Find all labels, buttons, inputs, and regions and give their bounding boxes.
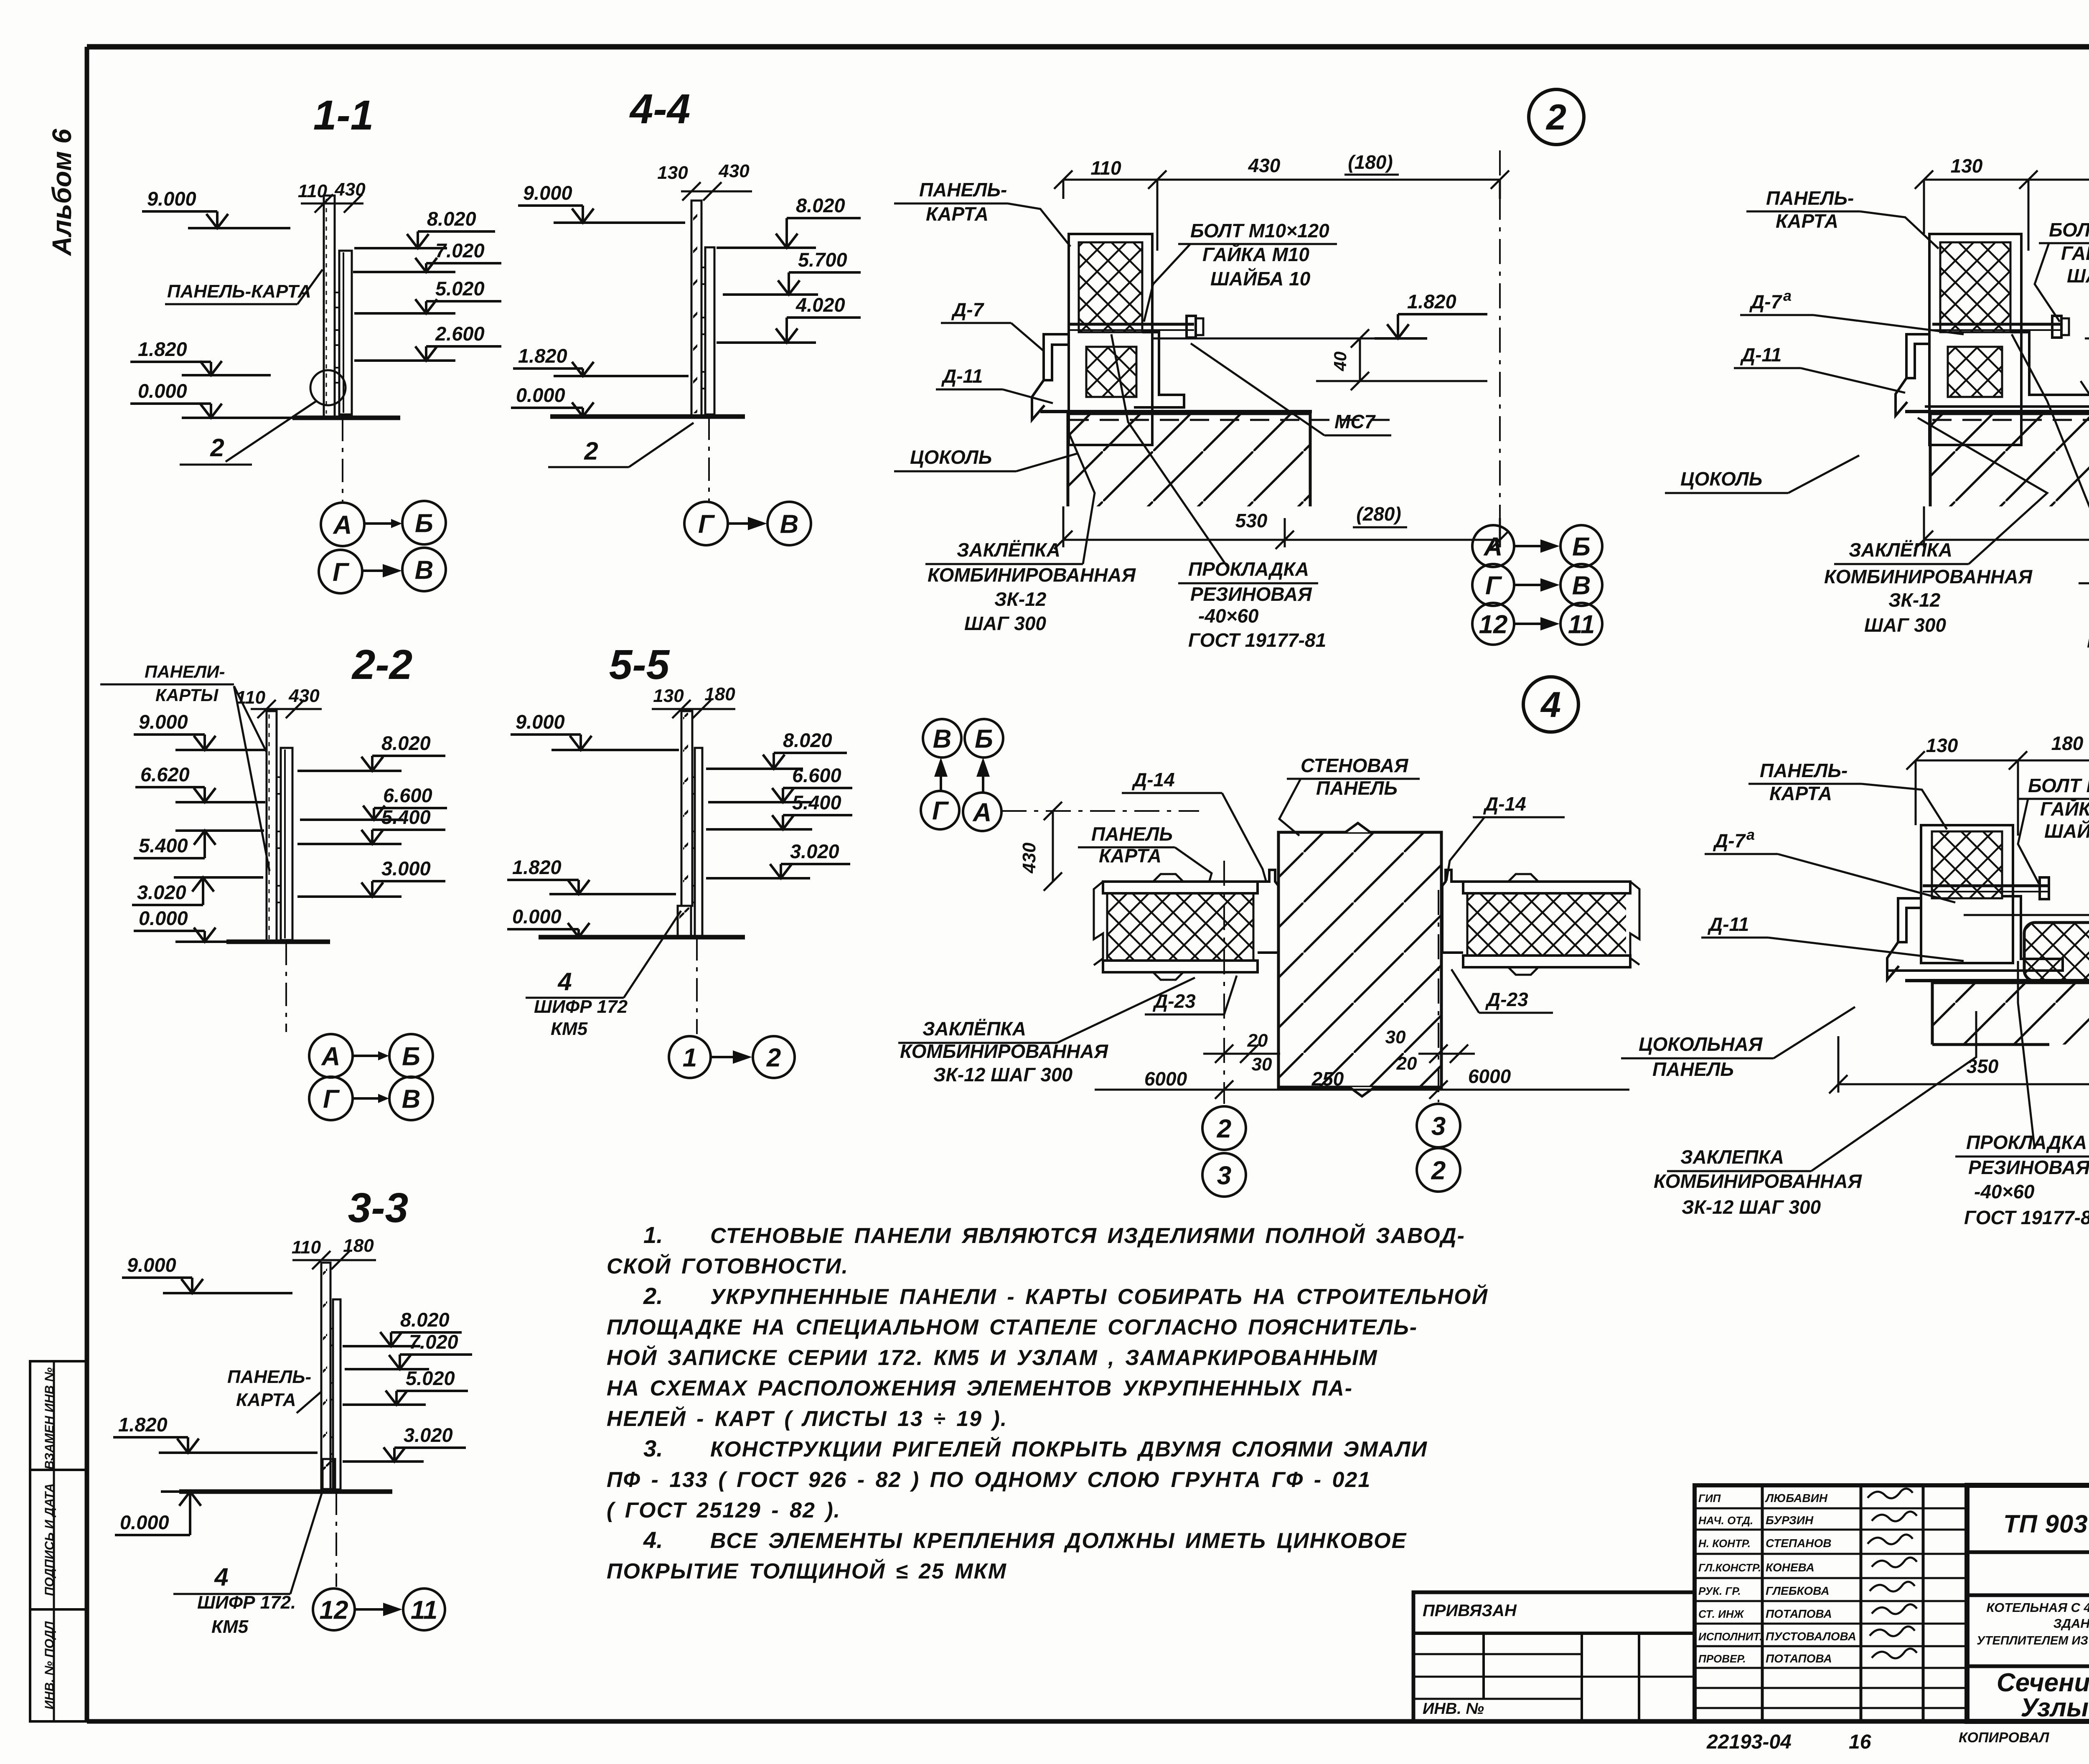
arrow 1 to 2 (5-5) xyxy=(712,1056,735,1058)
svg-text:5.400: 5.400 xyxy=(139,834,188,857)
svg-text:7.020: 7.020 xyxy=(435,239,485,262)
svg-text:(280): (280) xyxy=(1356,503,1401,525)
svg-text:ПРОВЕР.: ПРОВЕР. xyxy=(1698,1652,1746,1665)
center axis dash-dot (4-4) xyxy=(708,417,710,501)
ground line (1-1) xyxy=(292,416,400,420)
svg-text:ТП 903 -1- 246. 87: ТП 903 -1- 246. 87 xyxy=(2003,1510,2089,1538)
center axis dash-dot (5-5) xyxy=(696,937,698,1034)
elevation 5.400 right (2-2) xyxy=(297,806,445,844)
svg-text:Б: Б xyxy=(975,724,993,753)
svg-text:ИСПОЛНИТ.: ИСПОЛНИТ. xyxy=(1698,1630,1763,1643)
svg-text:ПЛОЩАДКЕ НА СПЕЦИАЛЬНОМ СТА: ПЛОЩАДКЕ НА СПЕЦИАЛЬНОМ СТАПЕЛЕ СОГЛАСНО… xyxy=(607,1315,1418,1340)
svg-text:3-3: 3-3 xyxy=(348,1184,409,1231)
svg-text:КАРТА: КАРТА xyxy=(1776,210,1838,232)
node circle 4 xyxy=(1523,677,1578,732)
svg-text:ГЛ.КОНСТР.: ГЛ.КОНСТР. xyxy=(1698,1561,1761,1574)
svg-text:ПОТАПОВА: ПОТАПОВА xyxy=(1766,1607,1832,1620)
svg-text:КАРТЫ: КАРТЫ xyxy=(155,685,219,705)
svg-text:КМ5: КМ5 xyxy=(211,1617,249,1637)
elevation 3.000 (2-2) xyxy=(297,857,445,897)
svg-text:КОПИРОВАЛ: КОПИРОВАЛ xyxy=(1959,1730,2049,1746)
elevation 1.820 (3-3) xyxy=(113,1413,318,1453)
svg-text:-40×60: -40×60 xyxy=(1974,1181,2035,1202)
svg-text:В: В xyxy=(402,1085,421,1113)
svg-text:5.700: 5.700 xyxy=(798,249,847,271)
svg-text:КМ5: КМ5 xyxy=(551,1019,588,1039)
svg-text:ШАЙБА 10: ШАЙБА 10 xyxy=(2044,820,2089,842)
elevation 0.000 (4-4) xyxy=(511,384,594,417)
arrow Г to В (2-2) xyxy=(353,1097,381,1100)
svg-text:КОМБИНИРОВАННАЯ: КОМБИНИРОВАННАЯ xyxy=(1824,566,2033,587)
elevation 5.020 (3-3) xyxy=(343,1367,468,1405)
svg-text:2.: 2. xyxy=(643,1283,663,1309)
svg-text:ЗК-12: ЗК-12 xyxy=(994,588,1047,610)
wall outer strip (5-5) xyxy=(695,748,702,937)
svg-text:Д-14: Д-14 xyxy=(1483,793,1526,815)
svg-text:ПАНЕЛЬ-: ПАНЕЛЬ- xyxy=(227,1367,311,1387)
svg-text:ЗАКЛЁПКА: ЗАКЛЁПКА xyxy=(957,539,1060,561)
svg-text:2: 2 xyxy=(1431,1156,1446,1185)
svg-text:а: а xyxy=(1746,826,1755,843)
svg-text:ВСЕ ЭЛЕМЕНТЫ КРЕПЛЕНИЯ ДОЛЖ: ВСЕ ЭЛЕМЕНТЫ КРЕПЛЕНИЯ ДОЛЖНЫ ИМЕТЬ ЦИНК… xyxy=(710,1529,1407,1553)
svg-text:4.020: 4.020 xyxy=(795,294,845,316)
svg-text:КАРТА: КАРТА xyxy=(1099,845,1161,867)
svg-text:ПФ - 133 ( ГОСТ 926 - 82 ): ПФ - 133 ( ГОСТ 926 - 82 ) ПО ОДНОМУ СЛО… xyxy=(607,1468,1371,1492)
axis circle 1 (5-5) xyxy=(669,1036,711,1078)
svg-text:8.020: 8.020 xyxy=(783,729,832,751)
elevation 6.600 (5-5) xyxy=(708,764,852,802)
floor slab / цоколь (node 2) xyxy=(1068,414,1310,506)
svg-text:НОЙ ЗАПИСКЕ СЕРИИ 172. КМ5: НОЙ ЗАПИСКЕ СЕРИИ 172. КМ5 И УЗЛАМ , ЗАМ… xyxy=(607,1345,1378,1370)
rigel beam (node 5) xyxy=(1932,983,2089,1045)
svg-text:Д-11: Д-11 xyxy=(941,365,983,387)
svg-text:ЦОКОЛЬНАЯ: ЦОКОЛЬНАЯ xyxy=(1639,1033,1763,1055)
svg-text:КОМБИНИРОВАННАЯ: КОМБИНИРОВАННАЯ xyxy=(1654,1170,1863,1192)
svg-text:3: 3 xyxy=(1217,1161,1231,1190)
svg-text:ЦОКОЛЬ: ЦОКОЛЬ xyxy=(910,446,992,468)
привязан table xyxy=(1413,1592,1695,1721)
svg-text:30: 30 xyxy=(1252,1054,1272,1075)
svg-text:ШИФР 172.: ШИФР 172. xyxy=(197,1592,296,1613)
title block main outline xyxy=(1967,1485,2089,1721)
wall panel-karta strip (1-1) xyxy=(324,196,335,417)
svg-text:ПОКРЫТИЕ ТОЛЩИНОЙ ≤ 25 МКМ: ПОКРЫТИЕ ТОЛЩИНОЙ ≤ 25 МКМ xyxy=(607,1558,1007,1584)
svg-text:11: 11 xyxy=(411,1596,437,1624)
axis circle Б (2-2) xyxy=(389,1034,433,1078)
svg-text:12: 12 xyxy=(1479,610,1508,639)
svg-text:В: В xyxy=(933,724,952,753)
svg-text:3.020: 3.020 xyxy=(404,1424,453,1446)
svg-text:1.820: 1.820 xyxy=(518,345,567,367)
svg-text:4-4: 4-4 xyxy=(629,86,691,132)
axis circle В (1-1) xyxy=(402,548,446,591)
axis circle 3 right (node 4) xyxy=(1417,1104,1460,1147)
svg-text:0.000: 0.000 xyxy=(139,907,188,929)
svg-text:ЗК-12 ШАГ 300: ЗК-12 ШАГ 300 xyxy=(933,1064,1073,1085)
svg-text:430: 430 xyxy=(1019,842,1039,874)
svg-text:ГАЙКА М10: ГАЙКА М10 xyxy=(2061,242,2089,264)
elevation 1.820 (node 2) xyxy=(1375,290,1487,338)
svg-text:КАРТА: КАРТА xyxy=(236,1390,296,1410)
svg-text:КОМБИНИРОВАННАЯ: КОМБИНИРОВАННАЯ xyxy=(900,1040,1109,1062)
panel-karta vertical (node 5) xyxy=(1921,825,2013,963)
svg-text:ЗАКЛЕПКА: ЗАКЛЕПКА xyxy=(1680,1146,1784,1168)
elevation 0.000 (1-1) xyxy=(130,380,292,418)
svg-text:ГИП: ГИП xyxy=(1698,1492,1721,1505)
svg-text:30: 30 xyxy=(1385,1027,1406,1047)
elevation 3.020 (5-5) xyxy=(706,840,850,878)
bracket profile (node 5) xyxy=(1898,898,1921,942)
left panel-karta horizontal (node 4) xyxy=(1103,882,1258,893)
svg-text:-40×60: -40×60 xyxy=(1198,605,1259,627)
margin box Взамен инв № xyxy=(30,1361,87,1470)
margin box Инв № подл xyxy=(30,1609,87,1721)
svg-text:СТЕНОВАЯ: СТЕНОВАЯ xyxy=(1301,755,1409,776)
svg-text:2: 2 xyxy=(1545,97,1566,137)
svg-text:5-5: 5-5 xyxy=(609,641,670,688)
svg-text:СКОЙ ГОТОВНОСТИ.: СКОЙ ГОТОВНОСТИ. xyxy=(607,1253,849,1279)
svg-text:а: а xyxy=(1783,287,1792,304)
elevation 9.000 (2-2) xyxy=(134,711,265,750)
svg-text:БОЛТ М10×140: БОЛТ М10×140 xyxy=(2028,775,2089,796)
svg-text:ШАГ 300: ШАГ 300 xyxy=(964,613,1046,634)
MC7 dashed line (node 2) xyxy=(1070,419,1400,421)
arrow 12 to 11 (3-3) xyxy=(356,1608,386,1611)
svg-text:Д-23: Д-23 xyxy=(1152,990,1196,1012)
svg-text:ПАНЕЛЬ: ПАНЕЛЬ xyxy=(1652,1058,1734,1080)
axis circle В (node 4) xyxy=(923,719,961,757)
axis circle Г (node 4) xyxy=(921,791,959,829)
svg-text:4: 4 xyxy=(214,1563,228,1591)
svg-text:9.000: 9.000 xyxy=(127,1254,176,1276)
svg-text:ПОДПИСЬ И ДАТА: ПОДПИСЬ И ДАТА xyxy=(43,1483,56,1596)
svg-text:ПРИВЯЗАН: ПРИВЯЗАН xyxy=(1423,1601,1517,1620)
wall outer strip (4-4) xyxy=(705,247,714,414)
elevation 5.700 (4-4) xyxy=(723,249,861,295)
brusok mineral wool block (node 5) xyxy=(2024,923,2089,981)
axis dash-dot verticals (node 4) xyxy=(1223,861,1225,1104)
svg-text:7.020: 7.020 xyxy=(409,1331,458,1353)
svg-text:40: 40 xyxy=(1330,351,1350,371)
svg-text:6.600: 6.600 xyxy=(792,764,841,786)
svg-text:ПАНЕЛЬ-: ПАНЕЛЬ- xyxy=(919,179,1007,201)
svg-text:3.020: 3.020 xyxy=(790,840,839,862)
svg-text:430: 430 xyxy=(288,686,320,706)
svg-text:РЕЗИНОВАЯ: РЕЗИНОВАЯ xyxy=(1190,583,1312,605)
svg-text:3.020: 3.020 xyxy=(137,881,186,903)
svg-text:УКРУПНЕННЫЕ ПАНЕЛИ - КАРТЫ С: УКРУПНЕННЫЕ ПАНЕЛИ - КАРТЫ СОБИРАТЬ НА С… xyxy=(710,1284,1488,1309)
svg-text:430: 430 xyxy=(718,161,750,181)
svg-text:4: 4 xyxy=(1540,685,1561,725)
svg-text:8.020: 8.020 xyxy=(427,208,476,230)
svg-text:2-2: 2-2 xyxy=(351,641,413,688)
axis circle 2 right (node 4) xyxy=(1417,1148,1460,1192)
axis circle А (node 4) xyxy=(963,793,1001,831)
svg-text:0.000: 0.000 xyxy=(512,905,562,928)
svg-text:0.000: 0.000 xyxy=(120,1511,169,1533)
svg-text:9.000: 9.000 xyxy=(147,188,196,210)
svg-text:Д-23: Д-23 xyxy=(1485,989,1528,1010)
elevation 8.020 (5-5) xyxy=(706,729,847,769)
svg-text:180: 180 xyxy=(2051,732,2084,754)
lower insulation block (node 2) xyxy=(1086,347,1136,397)
wall panel strip (3-3) xyxy=(321,1263,330,1492)
svg-text:Б: Б xyxy=(1572,532,1591,561)
detail circle 2 (1-1) xyxy=(310,370,346,405)
center axis dash-dot (1-1) xyxy=(342,418,343,501)
arrow А to Б (2-2) xyxy=(353,1055,381,1057)
svg-text:1.: 1. xyxy=(643,1222,663,1248)
svg-text:3: 3 xyxy=(1431,1112,1446,1141)
elevation 5.020 (1-1) xyxy=(354,277,501,313)
svg-text:130: 130 xyxy=(1926,735,1958,756)
svg-text:Г: Г xyxy=(333,558,350,587)
svg-text:1.820: 1.820 xyxy=(512,856,562,878)
center axis dash-dot (2-2) xyxy=(285,942,287,1032)
axis circle 3 left (node 4) xyxy=(1202,1153,1246,1197)
svg-text:ЗК-12: ЗК-12 xyxy=(1888,589,1941,611)
svg-text:130: 130 xyxy=(657,163,688,183)
svg-text:2: 2 xyxy=(1217,1114,1231,1143)
svg-text:430: 430 xyxy=(1248,155,1281,176)
svg-text:110: 110 xyxy=(1090,157,1121,179)
svg-text:ЗК-12 ШАГ 300: ЗК-12 ШАГ 300 xyxy=(1682,1196,1821,1218)
svg-text:ПРОКЛАДКА: ПРОКЛАДКА xyxy=(1966,1131,2087,1153)
elevation 0.000 (5-5) xyxy=(507,905,590,937)
svg-text:В: В xyxy=(1572,571,1591,600)
svg-text:СТЕПАНОВ: СТЕПАНОВ xyxy=(1766,1537,1832,1550)
svg-text:22193-04: 22193-04 xyxy=(1706,1731,1792,1753)
right panel-karta horizontal (node 4) xyxy=(1463,882,1630,893)
wall column strip (1-1) xyxy=(339,251,352,414)
svg-text:БОЛТ М10×140: БОЛТ М10×140 xyxy=(2049,219,2089,241)
svg-text:Узлы 2 ÷ 5: Узлы 2 ÷ 5 xyxy=(2020,1693,2089,1722)
bolt M10x140 (node 5) xyxy=(1923,885,2049,887)
svg-text:6000: 6000 xyxy=(1144,1068,1187,1090)
elevation 8.020 (4-4) xyxy=(717,194,861,248)
svg-text:4: 4 xyxy=(557,968,572,996)
svg-text:ГОСТ 19177-81: ГОСТ 19177-81 xyxy=(1964,1207,2089,1228)
svg-text:КОНЕВА: КОНЕВА xyxy=(1766,1561,1815,1574)
svg-text:1-1: 1-1 xyxy=(313,92,374,139)
axis circle 12 (node 2) xyxy=(1472,603,1514,645)
arrow А to Б xyxy=(365,522,394,525)
floor slab (node 3) xyxy=(1930,414,2089,506)
wall panel strip (4-4) xyxy=(691,201,701,416)
wall panel strip (2-2) xyxy=(267,711,277,942)
ground line (3-3) xyxy=(179,1489,392,1494)
svg-text:8.020: 8.020 xyxy=(796,194,845,216)
svg-text:СТ. ИНЖ: СТ. ИНЖ xyxy=(1698,1608,1745,1620)
svg-text:5.400: 5.400 xyxy=(792,791,841,813)
right axis dash-dot vertical (node 2) xyxy=(1499,150,1501,539)
arrows Г->В А->Б (node 4) xyxy=(940,772,942,791)
svg-text:Б: Б xyxy=(415,509,433,538)
elevation 5.400 (5-5) xyxy=(706,791,852,829)
svg-text:Г: Г xyxy=(323,1085,340,1113)
bolt M10x120 (node 2) xyxy=(1070,323,1194,326)
elevation 1.820 (5-5) xyxy=(507,856,676,894)
svg-text:2: 2 xyxy=(584,437,598,465)
svg-text:110: 110 xyxy=(236,687,266,708)
vertical dim 430 (node 4) xyxy=(1052,811,1054,882)
svg-text:КАРТА: КАРТА xyxy=(926,203,989,225)
svg-text:5.020: 5.020 xyxy=(406,1367,455,1389)
wall panel central (node 4) xyxy=(1278,832,1441,1087)
ground line (4-4) xyxy=(550,414,745,419)
svg-text:110: 110 xyxy=(292,1237,321,1258)
svg-text:БУРЗИН: БУРЗИН xyxy=(1766,1514,1814,1527)
wall outer strip (2-2) xyxy=(281,748,292,940)
svg-text:РЕЗИНОВАЯ: РЕЗИНОВАЯ xyxy=(1968,1157,2089,1178)
svg-text:Д-7: Д-7 xyxy=(951,299,985,320)
svg-text:250: 250 xyxy=(1311,1068,1344,1090)
svg-text:ГАЙКА М10: ГАЙКА М10 xyxy=(1202,244,1309,265)
joint bracket left (node 4) xyxy=(1258,870,1278,953)
svg-text:ПАНЕЛЬ-КАРТА: ПАНЕЛЬ-КАРТА xyxy=(167,281,311,302)
svg-text:20: 20 xyxy=(1247,1030,1268,1051)
svg-text:ВЗАМЕН ИНВ №: ВЗАМЕН ИНВ № xyxy=(43,1367,56,1469)
title block row lines xyxy=(1967,1550,2089,1554)
svg-text:ПАНЕЛЬ: ПАНЕЛЬ xyxy=(1091,823,1173,845)
svg-text:В: В xyxy=(780,510,799,539)
svg-text:8.020: 8.020 xyxy=(381,732,431,754)
axis circle Г (node 2) xyxy=(1472,564,1514,606)
svg-text:НЕЛЕЙ - КАРТ ( ЛИСТЫ 13 ÷ 19: НЕЛЕЙ - КАРТ ( ЛИСТЫ 13 ÷ 19 ). xyxy=(607,1406,1007,1431)
svg-text:ПУСТОВАЛОВА: ПУСТОВАЛОВА xyxy=(1766,1630,1856,1643)
svg-text:ЗАКЛЁПКА: ЗАКЛЁПКА xyxy=(1849,539,1952,561)
arrow Г to В (4-4) xyxy=(729,522,750,525)
elevation 9.000 (4-4) xyxy=(518,182,685,223)
svg-text:6.600: 6.600 xyxy=(383,784,432,806)
svg-text:20: 20 xyxy=(1396,1053,1417,1074)
svg-text:ЦОКОЛЬ: ЦОКОЛЬ xyxy=(1680,468,1762,490)
svg-text:А: А xyxy=(972,798,992,827)
axis circle Б (1-1) xyxy=(402,501,446,544)
svg-text:Б: Б xyxy=(402,1042,420,1071)
elevation 8.020 (3-3) xyxy=(343,1309,462,1346)
svg-text:4.: 4. xyxy=(643,1527,663,1553)
elevation 3.020 (2-2) xyxy=(132,877,263,905)
svg-text:ПАНЕЛЬ: ПАНЕЛЬ xyxy=(1316,777,1398,799)
svg-text:Альбом 6: Альбом 6 xyxy=(47,129,77,257)
axis circle В (2-2) xyxy=(389,1077,433,1120)
svg-text:ЗАКЛЁПКА: ЗАКЛЁПКА xyxy=(923,1018,1026,1040)
svg-text:УТЕПЛИТЕЛЕМ ИЗ МИНЕРАЛОВАТНЫХ: УТЕПЛИТЕЛЕМ ИЗ МИНЕРАЛОВАТНЫХ ПЛИТ xyxy=(1977,1634,2089,1647)
svg-text:(180): (180) xyxy=(1348,151,1393,173)
svg-text:ПАНЕЛЬ-: ПАНЕЛЬ- xyxy=(1766,187,1854,209)
svg-text:0.000: 0.000 xyxy=(138,380,187,402)
elevation 8.020 (2-2) xyxy=(297,732,445,771)
svg-text:( ГОСТ 25129 - 82 ).: ( ГОСТ 25129 - 82 ). xyxy=(607,1498,841,1523)
svg-text:НА СХЕМАХ РАСПОЛОЖЕНИЯ ЭЛЕМ: НА СХЕМАХ РАСПОЛОЖЕНИЯ ЭЛЕМЕНТОВ УКРУПНЕ… xyxy=(607,1376,1353,1401)
svg-text:2: 2 xyxy=(210,434,224,462)
svg-text:Г: Г xyxy=(698,510,715,539)
axis circle В (node 2) xyxy=(1560,564,1602,606)
svg-text:ЗДАНИЕ ИЗ ЛМК С: ЗДАНИЕ ИЗ ЛМК С xyxy=(2053,1616,2089,1631)
elevation 3.020 (3-3) xyxy=(343,1424,466,1462)
svg-text:1.820: 1.820 xyxy=(1407,290,1456,313)
svg-text:ПАНЕЛЬ-: ПАНЕЛЬ- xyxy=(1760,760,1848,781)
svg-text:Н. КОНТР.: Н. КОНТР. xyxy=(1698,1537,1751,1550)
svg-text:ШАЙБА 10: ШАЙБА 10 xyxy=(2067,265,2089,287)
dim 40 vertical (node 2) xyxy=(1359,338,1361,381)
axis circle Б (node 2) xyxy=(1560,525,1602,567)
axis circle 12 (3-3) xyxy=(313,1589,355,1630)
svg-text:9.000: 9.000 xyxy=(139,711,188,733)
svg-text:9.000: 9.000 xyxy=(523,182,572,204)
svg-text:КОНСТРУКЦИИ РИГЕЛЕЙ ПОКРЫТЬ: КОНСТРУКЦИИ РИГЕЛЕЙ ПОКРЫТЬ ДВУМЯ СЛОЯМИ… xyxy=(710,1436,1428,1462)
axis circle А (1-1) xyxy=(321,503,364,546)
panel-karta vertical (node 3) xyxy=(1929,234,2021,445)
svg-text:Г: Г xyxy=(1485,571,1502,600)
svg-text:ГАЙКА М10: ГАЙКА М10 xyxy=(2040,798,2089,820)
ground line (2-2) xyxy=(226,940,330,944)
svg-text:КАРТА: КАРТА xyxy=(1769,783,1832,804)
svg-text:А: А xyxy=(321,1042,341,1071)
svg-text:530: 530 xyxy=(1235,510,1268,531)
svg-text:8.020: 8.020 xyxy=(400,1309,450,1331)
elevation 5.400 left (2-2) xyxy=(134,831,264,858)
svg-text:Д-14: Д-14 xyxy=(1131,769,1175,790)
svg-text:350: 350 xyxy=(1967,1055,1999,1077)
arrow Г to В xyxy=(363,569,385,572)
svg-text:А: А xyxy=(333,511,352,539)
MC7 dashed line (node 3) xyxy=(1932,419,2089,421)
margin box Подпись и дата xyxy=(30,1470,87,1609)
axis circle 2 (5-5) xyxy=(753,1036,795,1078)
elevation 9.000 (1-1) xyxy=(142,188,290,228)
drawing frame border xyxy=(87,44,2089,50)
elevation 9.000 (3-3) xyxy=(122,1254,292,1293)
elevation 0.000 (3-3) xyxy=(115,1492,201,1535)
svg-text:Сечения 1-1 ÷ 5-5.: Сечения 1-1 ÷ 5-5. xyxy=(1997,1668,2089,1697)
elevation 4.020 (4-4) xyxy=(717,294,861,343)
pedestal (5-5) xyxy=(678,906,691,936)
axis circle А (node 2) xyxy=(1472,525,1514,567)
svg-text:ГОСТ 19177-81: ГОСТ 19177-81 xyxy=(1188,629,1326,651)
bolt M10x140 (node 3) xyxy=(1932,323,2062,326)
svg-text:КОМБИНИРОВАННАЯ: КОМБИНИРОВАННАЯ xyxy=(928,564,1136,586)
svg-text:Д-7: Д-7 xyxy=(1749,291,1783,313)
svg-text:3.000: 3.000 xyxy=(381,857,431,879)
svg-text:МС7: МС7 xyxy=(1334,411,1376,432)
elevation 8.020 (1-1) xyxy=(354,208,495,248)
svg-text:2.600: 2.600 xyxy=(435,323,485,345)
svg-text:1: 1 xyxy=(683,1043,697,1072)
svg-text:КОТЕЛЬНАЯ С 4 КОТЛАМИ ДЕ-16-14: КОТЕЛЬНАЯ С 4 КОТЛАМИ ДЕ-16-14 ГМ xyxy=(1986,1600,2089,1615)
svg-text:ГЛЕБКОВА: ГЛЕБКОВА xyxy=(1766,1584,1830,1597)
svg-text:1.820: 1.820 xyxy=(138,338,187,360)
svg-text:3.: 3. xyxy=(643,1435,663,1462)
svg-text:ГОСТ 19177-81: ГОСТ 19177-81 xyxy=(2087,630,2089,652)
svg-text:ШИФР 172: ШИФР 172 xyxy=(534,996,628,1017)
wall outer strip (3-3) xyxy=(333,1299,341,1489)
svg-text:ШАГ 300: ШАГ 300 xyxy=(1864,614,1946,636)
svg-text:В: В xyxy=(415,556,434,585)
svg-text:ИНВ. №: ИНВ. № xyxy=(1423,1700,1484,1718)
wall panel strip (5-5) xyxy=(681,711,692,906)
svg-text:ПРОКЛАДКА: ПРОКЛАДКА xyxy=(1188,558,1309,580)
axis circle Б (node 4) xyxy=(965,719,1003,757)
panel-karta vertical (node 2) xyxy=(1069,234,1152,445)
svg-text:Д-7: Д-7 xyxy=(1713,830,1746,851)
bracket profile (node 2) xyxy=(1044,334,1069,380)
elevation 1.820 (1-1) xyxy=(130,338,271,375)
svg-text:2: 2 xyxy=(766,1043,781,1072)
elevation 6.620 (2-2) xyxy=(135,763,265,802)
elevation 7.020 (3-3) xyxy=(345,1331,472,1369)
